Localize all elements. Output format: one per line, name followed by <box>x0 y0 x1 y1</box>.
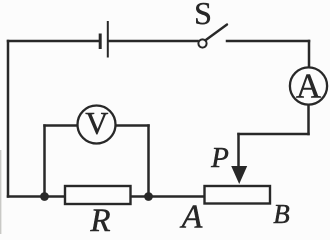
svg-text:P: P <box>210 142 229 174</box>
junction dot: node at R right / voltmeter tap <box>144 192 153 201</box>
switch S (open knife switch) <box>198 25 227 48</box>
wire: voltmeter branch right horizontal <box>116 124 149 127</box>
wire: top horizontal from left corner to battery <box>8 40 99 43</box>
wire: horizontal above rheostat slider <box>239 133 309 136</box>
svg-text:R: R <box>89 203 110 234</box>
svg-text:B: B <box>273 199 290 229</box>
wire: slider arrow shaft <box>237 134 240 170</box>
svg-text:A: A <box>296 67 322 106</box>
wire: ammeter to lower-right corner <box>307 105 310 135</box>
battery BT1 (cell) <box>99 21 109 58</box>
scan artifact: faint edge line bottom-left <box>0 150 1 234</box>
rheostat RP (resistive track A-B) <box>205 186 271 204</box>
svg-text:A: A <box>180 199 203 235</box>
svg-text:V: V <box>85 105 108 141</box>
wire: voltmeter branch left vertical <box>43 126 46 197</box>
wire: bottom horizontal left segment <box>8 195 65 198</box>
wire: left vertical side <box>7 41 10 197</box>
ammeter U1 <box>290 67 327 106</box>
slider arrow P (wiper) <box>231 166 247 184</box>
wire: voltmeter branch right vertical <box>147 126 150 197</box>
wire: top horizontal switch to top-right corner <box>227 40 309 43</box>
wire: top horizontal battery to switch <box>109 40 198 43</box>
wire: right vertical into ammeter <box>308 41 311 68</box>
svg-text:S: S <box>194 0 212 31</box>
wire: voltmeter branch left horizontal <box>45 124 78 127</box>
junction dot: node at R left / voltmeter tap <box>40 192 49 201</box>
voltmeter U2 <box>78 105 116 144</box>
wire: bottom horizontal between R and rheostat terminal A <box>131 195 205 198</box>
resistor R (rectangle) <box>65 186 131 204</box>
